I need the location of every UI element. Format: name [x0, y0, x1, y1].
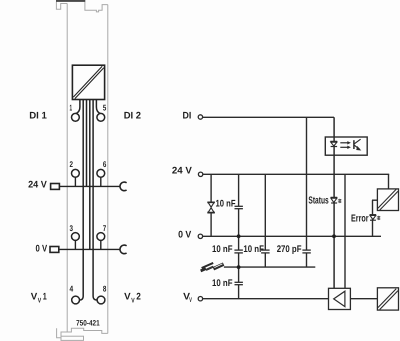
svg-text:1: 1: [43, 291, 47, 302]
svg-text:1: 1: [70, 102, 73, 112]
svg-text:24 V: 24 V: [28, 180, 47, 191]
svg-text:V: V: [38, 297, 42, 304]
svg-text:2: 2: [70, 159, 74, 169]
svg-text:3: 3: [70, 223, 74, 233]
svg-text:V: V: [189, 297, 192, 304]
svg-text:DI: DI: [183, 110, 192, 121]
svg-text:2: 2: [136, 291, 141, 302]
svg-text:10 nF: 10 nF: [216, 199, 236, 210]
svg-text:DI 2: DI 2: [124, 111, 141, 122]
svg-text:Status: Status: [308, 196, 329, 207]
svg-text:7: 7: [103, 223, 107, 233]
svg-text:24 V: 24 V: [172, 166, 193, 177]
svg-text:10 nF: 10 nF: [212, 278, 233, 289]
svg-text:8: 8: [103, 284, 107, 294]
svg-text:750-421: 750-421: [76, 318, 100, 327]
svg-text:Error: Error: [351, 213, 369, 224]
svg-text:4: 4: [70, 284, 74, 294]
svg-text:5: 5: [103, 102, 107, 112]
svg-text:V: V: [131, 297, 135, 304]
svg-text:DI 1: DI 1: [29, 111, 47, 122]
svg-text:6: 6: [103, 159, 107, 169]
svg-text:0 V: 0 V: [36, 244, 48, 255]
svg-text:0 V: 0 V: [178, 229, 192, 240]
svg-text:10 nF: 10 nF: [243, 244, 264, 255]
svg-text:10 nF: 10 nF: [212, 244, 233, 255]
svg-text:270 pF: 270 pF: [277, 244, 302, 255]
